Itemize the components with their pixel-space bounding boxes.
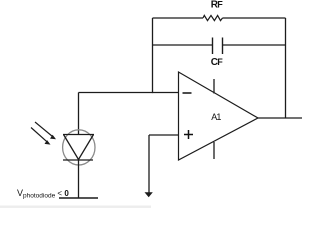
scan artifact band: [0, 206, 151, 208]
capacitor CF: [213, 38, 223, 55]
ground arrow: [145, 192, 153, 197]
wire inverting input: [79, 92, 179, 94]
photodiode D1: [63, 130, 95, 165]
power tick bottom: [213, 142, 215, 159]
light arrow 1: [35, 122, 56, 139]
ground bar: [59, 197, 98, 199]
plus sign: [184, 130, 193, 139]
wire output: [258, 117, 302, 119]
svg-text:RF: RF: [211, 0, 223, 11]
wire feedback top right segment: [223, 17, 286, 19]
power tick top: [213, 79, 215, 94]
minus sign: [183, 92, 192, 94]
svg-text:CF: CF: [211, 57, 223, 68]
wire feedback top left segment: [153, 17, 204, 19]
wire to ground arrow: [148, 135, 150, 193]
wire photodiode cathode: [78, 160, 80, 198]
light arrow 2: [31, 128, 51, 145]
wire capacitor left segment: [153, 44, 213, 46]
wire capacitor right segment: [223, 44, 286, 46]
op-amp A1: [179, 72, 259, 160]
wire photodiode anode: [78, 93, 80, 135]
resistor RF: [203, 15, 223, 20]
svg-text:A1: A1: [211, 112, 221, 122]
wire feedback right vertical: [285, 18, 287, 118]
wire non-inverting input: [149, 134, 179, 136]
wire feedback left vertical: [152, 18, 154, 93]
